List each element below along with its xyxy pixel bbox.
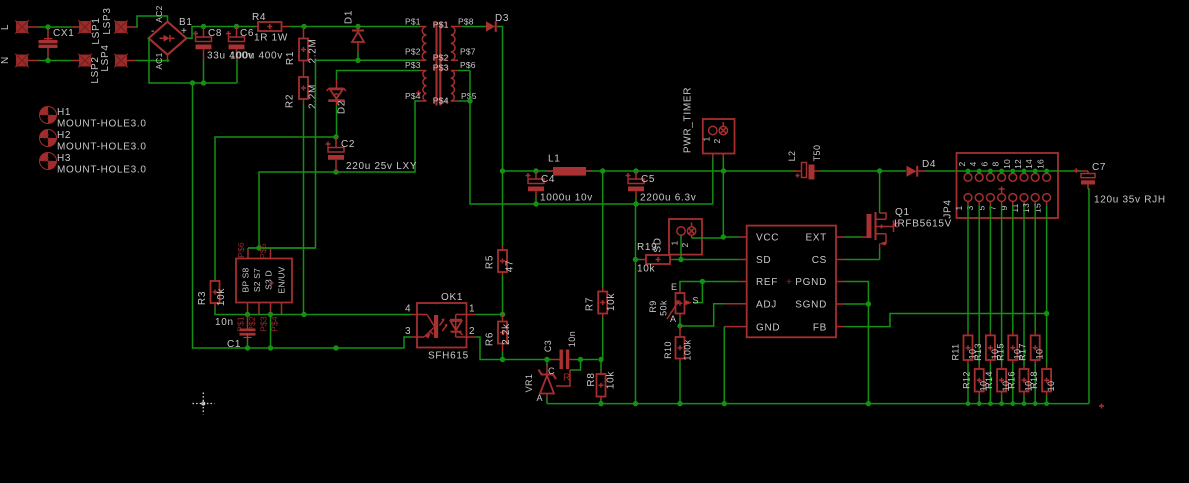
pin P$6 stub — [247, 248, 249, 259]
inductor L2 — [793, 170, 802, 172]
Q1 gate wire — [845, 236, 863, 238]
svg-text:ADJ: ADJ — [756, 300, 777, 311]
JP4 pin 5 — [987, 194, 995, 202]
JP4 pin 1 — [964, 194, 972, 202]
pin P$4 stub — [281, 303, 283, 315]
svg-text:JP4: JP4 — [943, 199, 954, 218]
svg-text:47: 47 — [505, 260, 516, 273]
svg-text:E: E — [671, 282, 677, 292]
wire P$3 to D2 — [337, 70, 420, 72]
pad LSP1 — [78, 20, 92, 34]
OK1 pin2 — [467, 336, 477, 338]
connector PWR_TIMER — [703, 119, 735, 154]
svg-text:2: 2 — [957, 161, 967, 166]
svg-text:R2: R2 — [285, 94, 296, 108]
svg-text:R: R — [563, 373, 571, 384]
resistor R12 — [978, 206, 980, 366]
shunt reference VR1 — [546, 360, 548, 367]
svg-text:LSP1: LSP1 — [91, 17, 102, 44]
svg-text:10: 10 — [1046, 381, 1056, 392]
svg-text:L: L — [0, 24, 11, 30]
svg-text:2200u 6.3v: 2200u 6.3v — [640, 193, 697, 204]
resistor R2 — [303, 61, 305, 78]
capacitor C5 — [635, 171, 637, 179]
svg-text:MOUNT-HOLE3.0: MOUNT-HOLE3.0 — [57, 165, 147, 176]
mount hole H3 — [40, 153, 57, 170]
resistor R18 — [1046, 206, 1048, 366]
wire PWR_TIMER pin1 to gnd — [712, 154, 714, 159]
svg-text:B1: B1 — [179, 17, 193, 28]
resistor R16 — [1023, 206, 1025, 366]
svg-text:H1: H1 — [57, 107, 71, 118]
svg-text:R7: R7 — [584, 297, 595, 311]
diode D2 zener — [336, 71, 339, 81]
svg-text:R4: R4 — [252, 12, 266, 23]
wire VCC — [723, 236, 738, 238]
pin P$2 stub — [258, 303, 260, 315]
node REF tap — [700, 279, 705, 284]
wire to R7/R8 mid — [581, 359, 599, 361]
svg-text:10: 10 — [1002, 159, 1012, 169]
svg-text:EXT: EXT — [805, 233, 827, 244]
node VR1 ref tap — [578, 357, 583, 362]
svg-text:R12: R12 — [962, 371, 972, 389]
wire P$5 P$6 join — [458, 70, 470, 72]
wire PGND/SGND join — [845, 282, 869, 305]
resistor R8 — [600, 360, 602, 371]
svg-text:LSP3: LSP3 — [102, 7, 113, 34]
capacitor C4 — [535, 171, 537, 179]
svg-text:P$1: P$1 — [433, 19, 449, 29]
svg-text:L2: L2 — [787, 151, 797, 162]
svg-text:6: 6 — [979, 161, 989, 166]
resistor R5 — [502, 246, 504, 250]
svg-text:10n: 10n — [215, 317, 234, 328]
svg-text:VCC: VCC — [756, 233, 779, 244]
node R2 line — [301, 312, 306, 317]
resistor R11 — [967, 206, 969, 332]
node R18 gnd — [1044, 401, 1049, 406]
node C2minus rail — [333, 345, 338, 350]
svg-text:A: A — [670, 314, 676, 324]
capacitor C1 — [247, 315, 249, 329]
svg-text:N: N — [0, 56, 11, 64]
svg-text:D2: D2 — [337, 100, 348, 114]
svg-text:C1: C1 — [227, 339, 241, 350]
wire mid link — [547, 359, 551, 361]
svg-text:P$6: P$6 — [460, 60, 476, 70]
svg-text:4: 4 — [968, 161, 978, 166]
JP4 pin 7 — [998, 194, 1006, 202]
svg-text:9: 9 — [999, 205, 1009, 210]
svg-text:P$5: P$5 — [258, 243, 268, 259]
svg-text:1R 1W: 1R 1W — [254, 33, 288, 44]
node C4 bottom — [533, 201, 538, 206]
svg-text:C8: C8 — [208, 28, 222, 39]
wire IC source rail — [248, 314, 412, 316]
optocoupler OK1 box — [417, 303, 467, 348]
wire SD pin1 — [680, 235, 682, 259]
svg-text:PWR_TIMER: PWR_TIMER — [683, 87, 694, 153]
svg-text:A: A — [537, 393, 543, 403]
bridge rectifier B1 — [149, 22, 187, 55]
resistor R1 — [303, 27, 305, 39]
svg-text:1: 1 — [469, 304, 475, 315]
svg-text:LSP4: LSP4 — [100, 44, 111, 71]
connector JP4 box — [957, 153, 1059, 218]
pad L — [15, 20, 29, 34]
svg-text:1000u 10v: 1000u 10v — [540, 193, 593, 204]
svg-text:10k: 10k — [606, 293, 617, 312]
wire C2 plus to R3 — [215, 137, 336, 281]
svg-text:FB: FB — [813, 323, 827, 334]
svg-text:-: - — [151, 26, 155, 37]
wire ADJ link — [680, 304, 725, 326]
svg-text:GND: GND — [756, 323, 780, 334]
svg-text:S3 D: S3 D — [264, 270, 274, 290]
node C3 left / VR1 top — [544, 357, 549, 362]
node FB/R18 — [1044, 311, 1049, 316]
node C4 top — [533, 168, 538, 173]
potentiometer R9 — [679, 290, 681, 293]
JP4 pin 6 — [987, 173, 995, 181]
svg-text:PGND: PGND — [795, 277, 827, 288]
svg-text:15: 15 — [1033, 203, 1043, 213]
wire bias to IC pins P$6 P$5 — [248, 247, 315, 249]
wire OK1 pin1 — [476, 314, 503, 316]
resistor R19 — [636, 259, 643, 261]
JP4 pin 4 — [975, 173, 983, 181]
node R5/R6/pin1 — [500, 312, 505, 317]
svg-text:D4: D4 — [922, 159, 936, 170]
pad LSP4 — [114, 54, 128, 68]
capacitor CX1 — [47, 27, 49, 40]
IC right pin stubs — [836, 236, 845, 238]
wire REF to pot top — [680, 282, 702, 291]
OK1 photodiode — [456, 315, 467, 338]
svg-text:EN/UV: EN/UV — [277, 266, 287, 293]
capacitor C7 — [1058, 170, 1081, 172]
mark near rail end — [1099, 404, 1104, 409]
resistor R14 — [1001, 206, 1003, 366]
wire SD pin2 to VCC — [691, 235, 693, 238]
node D1 bottom — [355, 58, 360, 63]
node R19 left — [633, 257, 638, 262]
wire D4 to JP4 — [925, 170, 957, 172]
svg-text:+: + — [786, 277, 793, 288]
resistor R7 — [602, 171, 604, 288]
svg-text:120u 35v RJH: 120u 35v RJH — [1094, 195, 1166, 206]
node C8 bottom — [201, 80, 206, 85]
svg-text:220u 25v LXY: 220u 25v LXY — [346, 161, 417, 172]
node gnd rail R19 drop — [633, 401, 638, 406]
mount hole H1 — [40, 107, 57, 124]
svg-text:MOUNT-HOLE3.0: MOUNT-HOLE3.0 — [57, 119, 147, 130]
svg-text:R8: R8 — [586, 372, 597, 386]
svg-text:P$3: P$3 — [405, 60, 421, 70]
svg-text:R1: R1 — [285, 51, 296, 65]
node C5 top — [633, 168, 638, 173]
mount hole H2 — [40, 130, 57, 147]
pad N — [15, 54, 29, 68]
capacitor C3 — [551, 359, 560, 361]
OK1 pin1 — [467, 314, 477, 316]
wire bridge minus to bottom rail — [149, 38, 237, 83]
svg-text:R10: R10 — [663, 341, 673, 359]
svg-text:16: 16 — [1036, 159, 1046, 169]
svg-text:D1: D1 — [344, 10, 355, 24]
node R9a/R10 — [677, 323, 682, 328]
node CX1 top — [45, 24, 50, 29]
node R8 bottom — [598, 401, 603, 406]
node D2/C2/R3 — [333, 134, 338, 139]
svg-text:R6: R6 — [485, 332, 496, 346]
svg-text:10: 10 — [1035, 349, 1045, 360]
wire C6 bottom riser — [236, 59, 238, 83]
diode D1 — [357, 27, 359, 32]
svg-text:3: 3 — [965, 205, 975, 210]
svg-text:R16: R16 — [1007, 371, 1017, 389]
svg-text:P$3: P$3 — [433, 62, 449, 72]
diode D3 — [462, 26, 486, 28]
svg-text:C2: C2 — [341, 139, 355, 150]
svg-text:3: 3 — [405, 326, 411, 337]
node R14 gnd — [999, 401, 1004, 406]
node R17 gnd — [1033, 401, 1038, 406]
pad LSP3 — [114, 20, 128, 34]
svg-text:C5: C5 — [641, 174, 655, 185]
resistor R6 — [502, 315, 504, 322]
V+ rail after D3 — [503, 170, 798, 172]
node R10 bottom — [677, 401, 682, 406]
svg-text:VR1: VR1 — [524, 374, 534, 393]
wire D1/P$2 net — [316, 59, 421, 61]
svg-text:REF: REF — [756, 277, 778, 288]
origin crosshair — [193, 393, 215, 415]
node SD pin1 junction — [678, 257, 683, 262]
resistor R13 — [989, 206, 991, 332]
Q1 drain — [880, 213, 886, 219]
JP4 pin 16 — [1043, 173, 1051, 181]
inductor L1 — [553, 167, 586, 176]
wire IC GND down — [723, 327, 725, 404]
pad LSP2 — [78, 54, 92, 68]
node rail bottom left — [190, 80, 195, 85]
node C2 bottom — [333, 169, 338, 174]
wire link rails — [270, 315, 272, 349]
node R1 top — [301, 24, 306, 29]
JP4 pin 12 — [1020, 173, 1028, 181]
JP4 pin 2 — [964, 173, 972, 181]
svg-text:P$3: P$3 — [259, 316, 269, 332]
transformer core — [437, 23, 441, 106]
svg-text:2: 2 — [712, 138, 722, 143]
transformer winding P$6-P$5 — [451, 71, 455, 101]
wire D3 to V+ rail — [497, 27, 503, 247]
connector SD — [669, 219, 702, 255]
node C6 top — [234, 24, 239, 29]
node V+ tap — [500, 168, 505, 173]
wire PWR_TIMER pin2 to V+ — [722, 154, 724, 159]
wire FB — [845, 314, 1047, 327]
node PWR_TIMER tap — [721, 168, 726, 173]
node L1 right — [600, 168, 605, 173]
svg-text:13: 13 — [1021, 203, 1031, 213]
svg-text:10k: 10k — [216, 288, 227, 307]
node VCC junction — [721, 234, 726, 239]
OK1 pin4 — [411, 314, 417, 316]
Q1 body diode — [886, 221, 898, 233]
svg-text:D3: D3 — [495, 13, 509, 24]
wire wiper to REF — [693, 282, 702, 303]
svg-text:MOUNT-HOLE3.0: MOUNT-HOLE3.0 — [57, 142, 147, 153]
svg-text:R3: R3 — [197, 291, 208, 305]
wire primary return long rail — [193, 83, 412, 348]
resistor R3 — [211, 281, 220, 303]
svg-text:P$8: P$8 — [458, 17, 474, 27]
wire L to LSP1 — [39, 26, 72, 28]
svg-text:1: 1 — [670, 240, 680, 245]
JP4 pin 11 — [1020, 194, 1028, 202]
svg-text:R9: R9 — [648, 300, 658, 312]
svg-text:CS: CS — [812, 255, 827, 266]
OK1 pin3 — [411, 336, 417, 338]
pin P$1 stub — [247, 303, 249, 315]
svg-text:SGND: SGND — [795, 300, 827, 311]
svg-text:C6: C6 — [240, 28, 254, 39]
JP4 pin 15 — [1043, 194, 1051, 202]
wire top rail to transformer — [290, 26, 420, 28]
node R6 bottom — [500, 357, 505, 362]
svg-text:P$2: P$2 — [433, 52, 449, 62]
resistor R4 — [255, 26, 258, 28]
capacitor C6 — [236, 27, 238, 38]
svg-text:5: 5 — [976, 205, 986, 210]
node R11 gnd — [966, 401, 971, 406]
wire bridge plus to top rail — [187, 27, 256, 39]
svg-text:H2: H2 — [57, 130, 71, 141]
svg-text:P$2: P$2 — [405, 47, 421, 57]
node CX1 bottom — [45, 58, 50, 63]
svg-text:R19: R19 — [637, 242, 657, 253]
wire C3 right — [575, 359, 581, 361]
svg-text:C4: C4 — [541, 174, 555, 185]
resistor R15 — [1012, 206, 1014, 332]
node C8 top — [201, 24, 206, 29]
node R13 gnd — [988, 401, 993, 406]
node R7/R8 mid — [598, 357, 603, 362]
svg-text:8: 8 — [991, 161, 1001, 166]
wire REF — [702, 281, 738, 283]
node bias junction — [256, 245, 261, 250]
JP4 pin 14 — [1031, 173, 1039, 181]
wire secondary return — [470, 101, 713, 204]
svg-text:P$1: P$1 — [405, 17, 421, 27]
IC U2 controller box — [747, 226, 836, 338]
node sgnd rail — [866, 401, 871, 406]
node P$1/C1 — [245, 312, 250, 317]
node C1 bottom — [245, 345, 250, 350]
svg-text:CX1: CX1 — [53, 28, 75, 39]
capacitor C2 — [335, 137, 337, 148]
Q1 source — [881, 234, 886, 244]
svg-text:P$6: P$6 — [236, 242, 246, 258]
resistor R10 — [679, 326, 681, 337]
svg-text:Q1: Q1 — [895, 207, 910, 218]
wire R2 bottom to IC rail — [303, 104, 305, 315]
svg-text:P$7: P$7 — [460, 47, 476, 57]
svg-text:10n: 10n — [567, 331, 577, 347]
svg-text:1: 1 — [702, 136, 712, 141]
svg-text:2.2k: 2.2k — [501, 323, 512, 345]
JP4 pin 13 — [1031, 194, 1039, 202]
node D1 top — [355, 24, 360, 29]
svg-text:10k: 10k — [606, 371, 617, 390]
JP4 pin 9 — [1009, 194, 1017, 202]
svg-text:OK1: OK1 — [441, 292, 463, 303]
svg-text:L1: L1 — [548, 154, 561, 165]
node R15 gnd — [1010, 401, 1015, 406]
VR1 ref pin path — [570, 360, 581, 371]
pin P$3 stub — [270, 303, 272, 315]
svg-text:11: 11 — [1010, 203, 1020, 212]
wire gnd drop to R19 — [635, 204, 637, 404]
JP4 pin 3 — [975, 194, 983, 202]
svg-text:12: 12 — [1013, 159, 1023, 169]
svg-text:S: S — [693, 296, 699, 306]
svg-text:C7: C7 — [1092, 162, 1106, 173]
svg-text:T50: T50 — [812, 145, 822, 162]
svg-text:C: C — [548, 366, 555, 376]
svg-text:R14: R14 — [984, 371, 994, 389]
node P$3 link — [268, 312, 273, 317]
pin P$5 stub — [270, 248, 272, 259]
svg-text:P$4: P$4 — [405, 91, 421, 101]
svg-text:H3: H3 — [57, 153, 71, 164]
svg-text:R17: R17 — [1018, 343, 1028, 361]
svg-text:2.2M: 2.2M — [308, 84, 319, 109]
svg-text:100k: 100k — [683, 339, 693, 360]
wire LSP4 to AC1 — [136, 60, 167, 62]
node R12 gnd — [977, 401, 982, 406]
svg-text:R18: R18 — [1029, 371, 1039, 389]
wire C7 down right side — [1088, 189, 1089, 404]
IC U1 BPS8 box — [236, 259, 292, 303]
node link lower — [268, 345, 273, 350]
wire LSP3 to AC2 — [136, 16, 168, 27]
svg-text:1: 1 — [954, 205, 964, 210]
svg-text:AC1: AC1 — [154, 52, 164, 69]
node PGND/SGND — [866, 301, 871, 306]
wire OK1 pin2 down — [476, 337, 551, 360]
resistor R17 — [1034, 206, 1036, 332]
svg-text:R5: R5 — [485, 255, 496, 269]
JP4 pin 10 — [1009, 173, 1017, 181]
node P$5/P$6 — [467, 98, 472, 103]
svg-text:SFH615: SFH615 — [428, 351, 469, 362]
node Q1 drain tap — [877, 168, 882, 173]
node IC GND rail — [722, 401, 727, 406]
JP4 pin 8 — [998, 173, 1006, 181]
JP4 pin7 polarity mark — [999, 187, 1005, 194]
svg-text:S2 S7: S2 S7 — [252, 268, 262, 292]
svg-text:R11: R11 — [951, 343, 961, 360]
transformer winding P$8-P$7 — [451, 27, 455, 61]
svg-text:BP S8: BP S8 — [241, 267, 251, 292]
svg-text:14: 14 — [1024, 159, 1034, 169]
svg-text:R15: R15 — [995, 343, 1005, 361]
wire CS to source — [845, 259, 880, 261]
